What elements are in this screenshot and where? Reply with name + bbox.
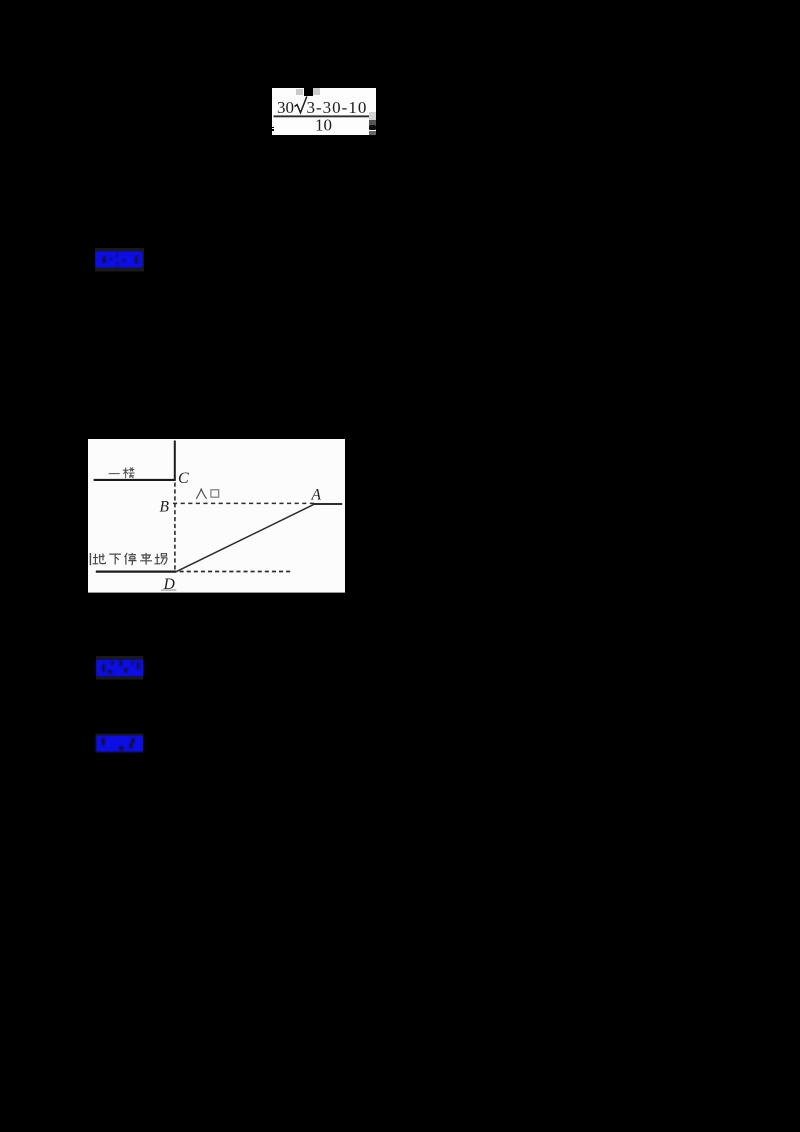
svg-text:A: A — [310, 487, 321, 504]
parking floor line — [95, 571, 176, 573]
clipped tick at left edge — [89, 553, 91, 565]
badge 1 【答案】 blue label — [88, 244, 152, 278]
equation selection handle top-left gray — [296, 89, 303, 95]
first floor line 一楼 — [93, 479, 175, 481]
badge 3 【点睛】 blue label — [88, 727, 152, 759]
dashed vertical C-D — [173, 483, 175, 571]
equation fraction numerator 30√3-30-10 — [272, 88, 377, 136]
equation handle bottom-right dark gray — [369, 120, 376, 125]
label 地下停车场 — [90, 553, 167, 565]
svg-text:3-30-10: 3-30-10 — [306, 98, 367, 117]
fraction bar — [273, 115, 369, 117]
svg-text:10: 10 — [315, 115, 332, 134]
equation selection handle top-right gray — [313, 88, 320, 94]
gray blob bottom corner — [369, 131, 376, 136]
radical sign — [294, 96, 306, 112]
dashed horizontal B-A — [173, 503, 316, 505]
label 入口 — [196, 489, 218, 499]
equation black notch top-center — [304, 88, 313, 97]
road at A — [313, 503, 341, 505]
badge 2 【解析】 blue label — [88, 648, 152, 684]
equals ticks left edge — [271, 127, 274, 129]
ramp line A-D — [176, 504, 314, 571]
equation image white box — [272, 88, 376, 136]
svg-text:C: C — [178, 470, 189, 487]
equation selection handle right-middle light gray — [369, 112, 376, 120]
diagram image white box — [88, 439, 345, 593]
svg-text:30: 30 — [277, 98, 294, 117]
wall vertical line — [173, 441, 175, 481]
label 一楼 — [108, 468, 134, 479]
comma mark black under handle — [369, 125, 376, 130]
svg-text:B: B — [159, 499, 169, 516]
dashed line right of D — [179, 571, 291, 573]
D underline gray — [160, 589, 175, 591]
